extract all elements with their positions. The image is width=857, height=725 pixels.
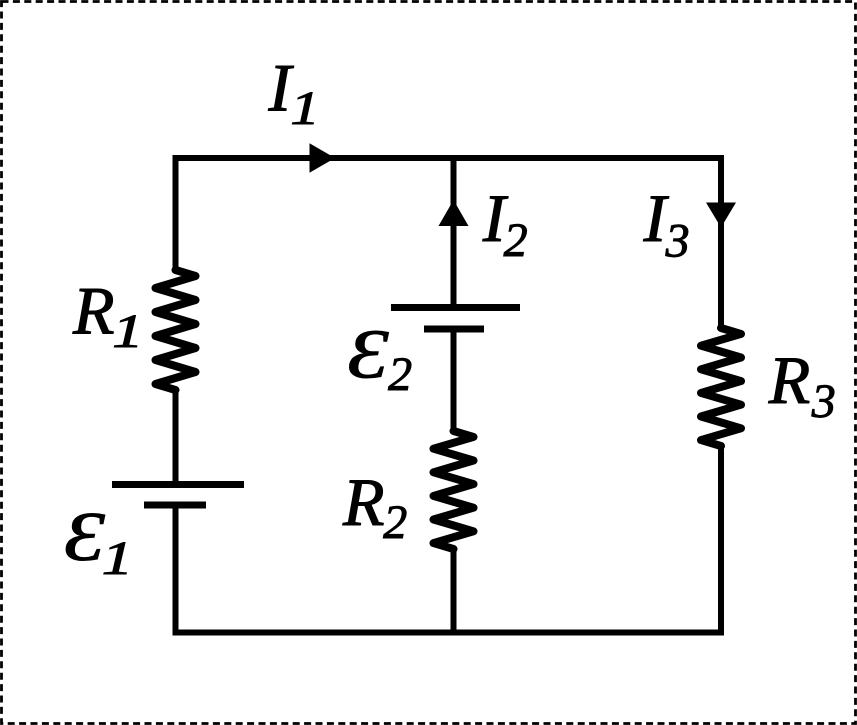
svg-text:R: R — [768, 342, 811, 418]
wire: left branch between R1 and battery E1 top plate — [173, 390, 179, 485]
label E1 (emf) — [64, 498, 105, 576]
svg-text:3: 3 — [811, 375, 836, 428]
resistor R3 — [701, 328, 741, 446]
svg-text:1: 1 — [112, 305, 143, 358]
wire: top wire from node A (top-left) to top-right corner — [176, 158, 722, 270]
label E2 (emf) — [347, 315, 388, 393]
svg-text:1: 1 — [102, 532, 133, 585]
svg-text:Ɛ: Ɛ — [347, 315, 388, 393]
battery E1 long plate — [112, 481, 244, 488]
arrow I2 (current direction up, on middle branch) — [439, 200, 469, 226]
svg-text:2: 2 — [388, 348, 412, 401]
wire: right branch between I3 arrow and R3 — [718, 202, 724, 328]
wire: left branch below battery E1 down to bottom-left corner, bottom wire, right branch below R3 — [176, 446, 722, 633]
svg-text:3: 3 — [665, 214, 690, 267]
svg-text:Ɛ: Ɛ — [64, 498, 105, 576]
svg-text:2: 2 — [504, 214, 528, 267]
wire: middle branch between battery E2 bottom plate and R2 — [451, 329, 457, 431]
arrow I3 (current direction down, on right branch) — [706, 203, 736, 228]
battery E2 long plate — [391, 304, 520, 311]
svg-text:2: 2 — [383, 496, 407, 549]
battery E2 short plate — [424, 326, 484, 333]
wire: middle branch below R2 to bottom wire junction — [451, 549, 457, 636]
svg-text:1: 1 — [290, 81, 319, 135]
resistor R2 — [434, 431, 474, 549]
svg-text:R: R — [72, 272, 115, 348]
resistor R1 — [156, 270, 196, 390]
wire: middle branch top (junction to I2 arrow region down to battery E2 top plate) — [451, 158, 457, 308]
battery E1 short plate — [144, 502, 206, 509]
arrow I1 (current direction right, on top wire) — [310, 143, 336, 172]
svg-text:R: R — [342, 464, 385, 540]
